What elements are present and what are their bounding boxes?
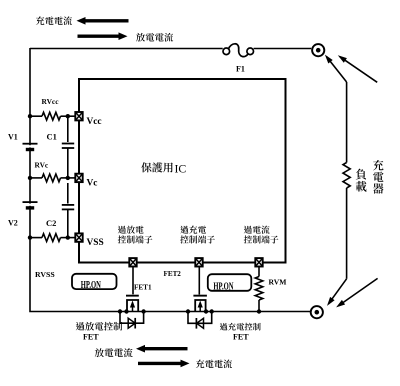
svg-text:RVSS: RVSS xyxy=(35,270,55,279)
svg-text:FET: FET xyxy=(83,333,99,342)
svg-text:V1: V1 xyxy=(8,133,18,142)
svg-text:C1: C1 xyxy=(47,132,57,142)
svg-text:RVM: RVM xyxy=(269,278,287,287)
svg-text:RVcc: RVcc xyxy=(42,97,60,106)
svg-text:IC: IC xyxy=(175,162,187,176)
svg-text:C2: C2 xyxy=(46,218,56,228)
svg-text:FET: FET xyxy=(233,333,249,342)
svg-text:Vc: Vc xyxy=(87,179,98,189)
svg-text:RVc: RVc xyxy=(35,161,49,170)
svg-text:HP.ON: HP.ON xyxy=(81,278,101,290)
svg-text:Vcc: Vcc xyxy=(87,117,102,127)
svg-text:FET1: FET1 xyxy=(134,284,152,292)
svg-text:F1: F1 xyxy=(236,65,245,74)
svg-text:V2: V2 xyxy=(8,219,18,228)
svg-text:VSS: VSS xyxy=(87,238,104,248)
svg-text:HP.ON: HP.ON xyxy=(213,280,233,292)
svg-text:FET2: FET2 xyxy=(164,270,182,278)
